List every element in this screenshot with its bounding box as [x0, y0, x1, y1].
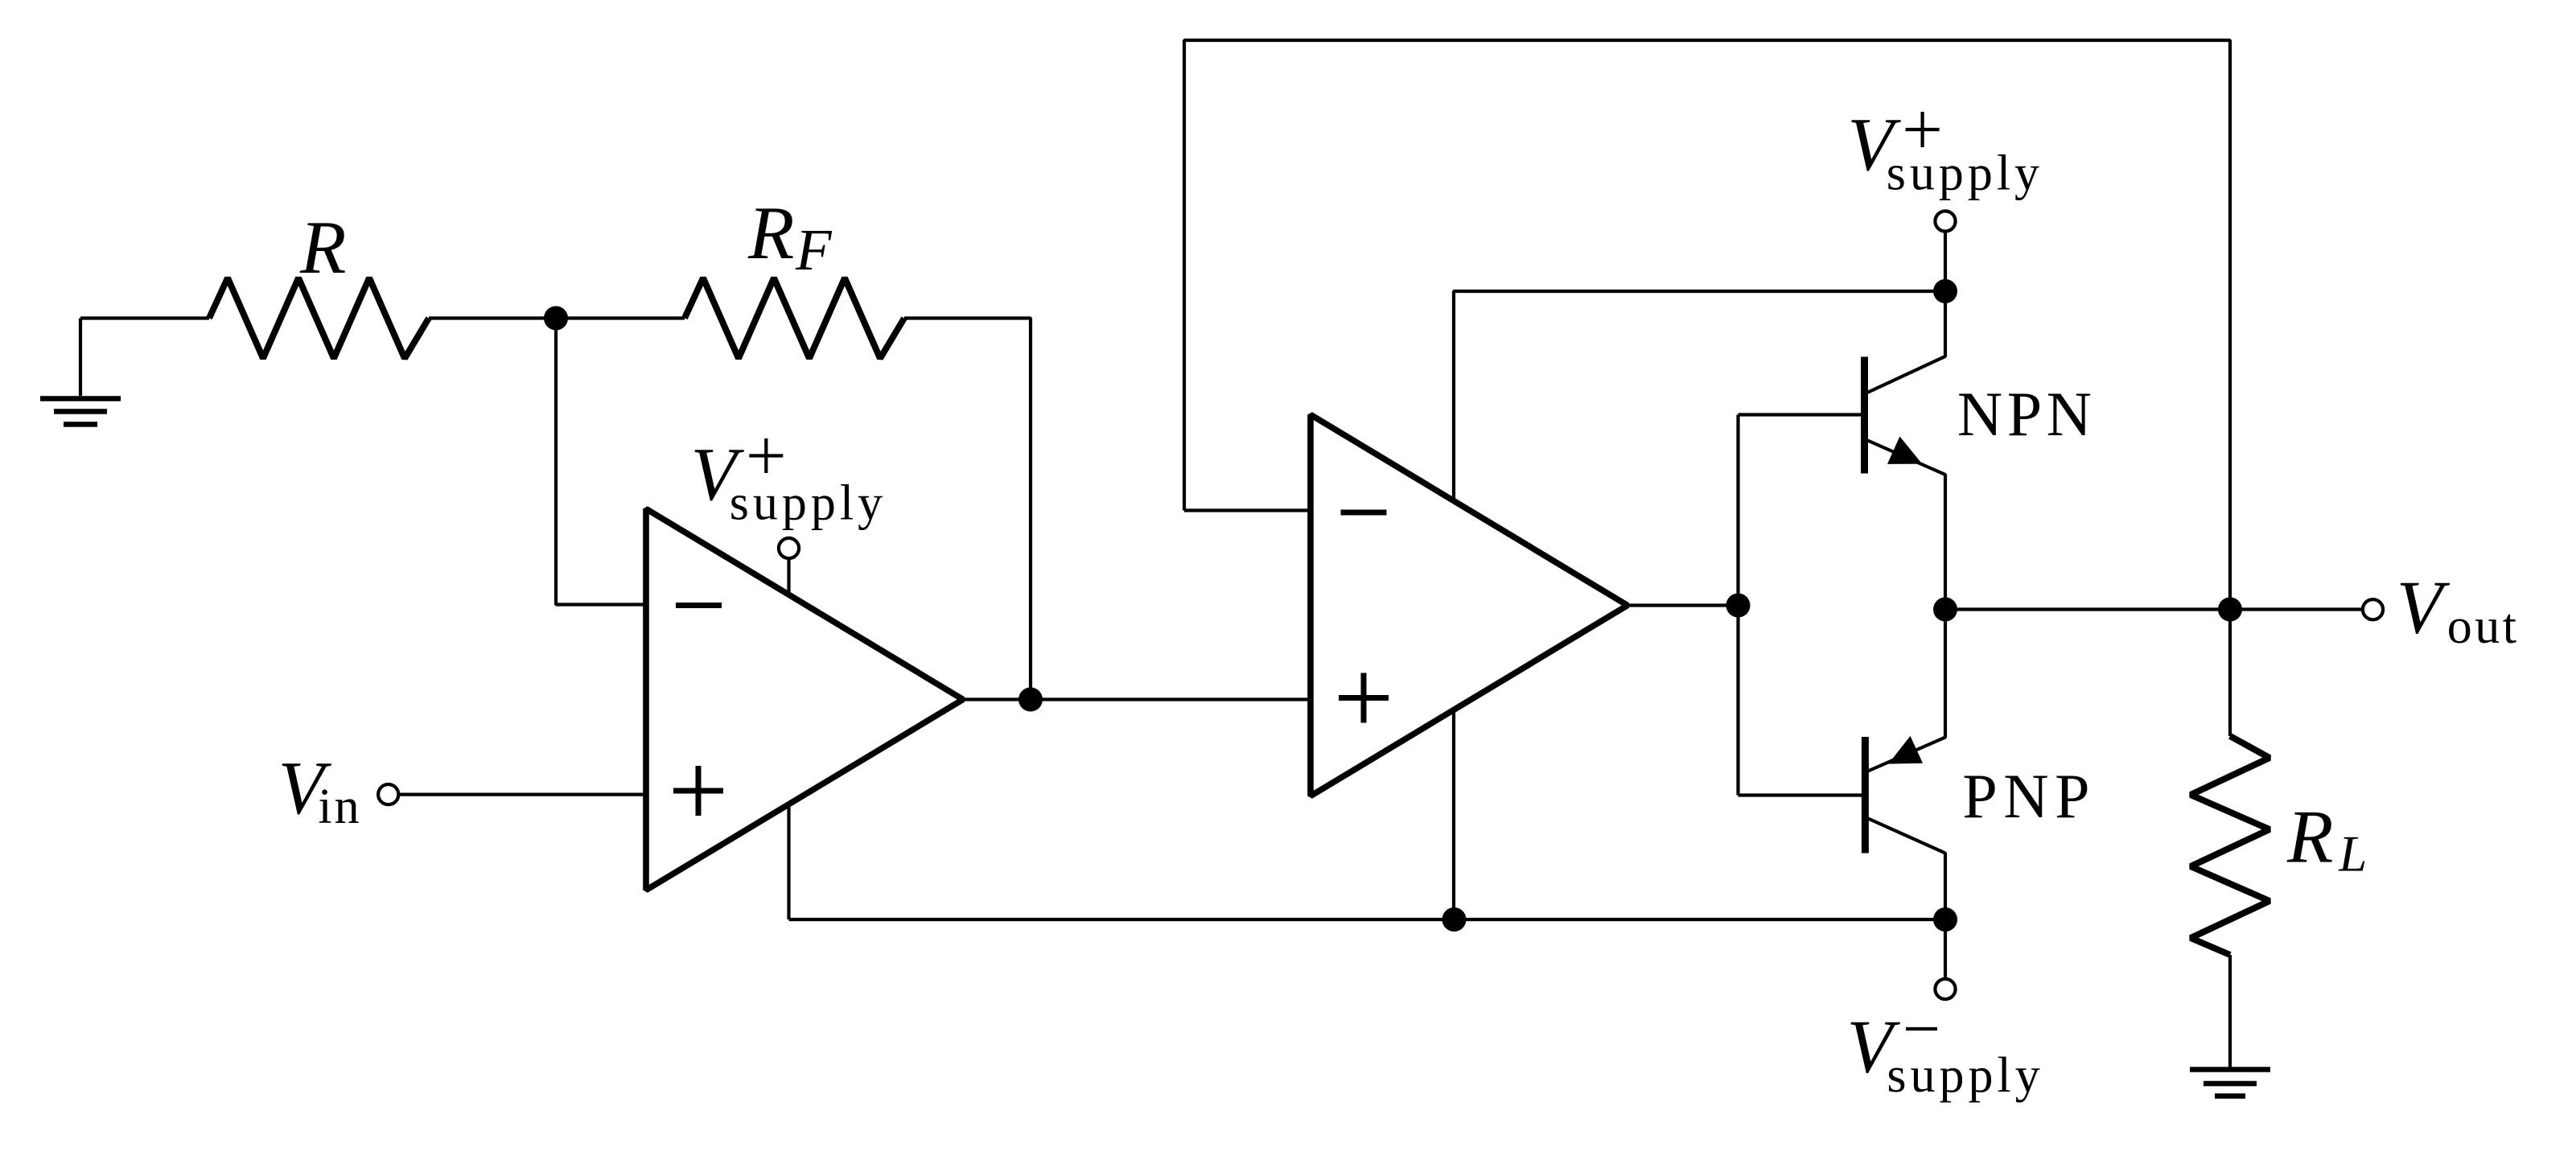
U1 V+ supply pin: [779, 538, 799, 595]
node Vout terminal: [2363, 599, 2383, 619]
svg-text:R: R: [299, 206, 346, 290]
wire feedback top rail: [1184, 40, 2230, 610]
node Vin terminal: [378, 784, 398, 804]
ground: [40, 319, 121, 425]
label Vout: [2397, 566, 2520, 654]
svg-text:NPN: NPN: [1957, 379, 2097, 449]
label V+supply U1: [691, 433, 887, 531]
wire RL bottom: [2228, 955, 2232, 1067]
node rail-U2: [1442, 907, 1467, 932]
wire: [904, 319, 1031, 700]
wire U2 output: [1627, 603, 1739, 607]
resistor R: [209, 278, 429, 359]
resistor RF: [685, 278, 904, 359]
wire RL top: [2228, 610, 2232, 737]
node V- supply junction: [1933, 907, 1957, 932]
op-amp U1: [646, 509, 963, 891]
node emitter junction: [1933, 598, 1957, 622]
svg-text:supply: supply: [730, 476, 887, 531]
wire: [429, 316, 556, 319]
wire bottom rail: [789, 918, 1946, 921]
wire Vout: [1945, 607, 2363, 611]
svg-text:L: L: [2338, 826, 2367, 882]
wire node B to U2 plus input: [1031, 697, 1311, 701]
U2 V- supply pin: [1452, 711, 1455, 919]
svg-text:V: V: [2397, 566, 2450, 649]
ground 2: [2190, 1070, 2270, 1096]
V+ supply terminal: [1935, 211, 1955, 291]
resistor RL: [2191, 736, 2269, 955]
V- supply terminal: [1935, 919, 1955, 999]
transistor Q1 NPN: [1739, 291, 1946, 610]
node feedback/RL: [2218, 598, 2242, 622]
svg-text:F: F: [795, 217, 833, 282]
U1 V- supply pin: [787, 804, 790, 920]
wire U2 minus input: [1184, 508, 1311, 512]
op-amp U2: [1311, 415, 1627, 796]
svg-text:PNP: PNP: [1962, 761, 2096, 831]
transistor Q2 PNP: [1739, 610, 1946, 920]
label V-supply bottom: [1847, 1006, 2044, 1103]
label V+supply top: [1847, 103, 2043, 200]
svg-text:R: R: [747, 191, 794, 275]
wire base rail: [1736, 415, 1739, 796]
node B: [1018, 688, 1043, 712]
U2 V+ supply riser: [1454, 291, 1945, 501]
svg-text:supply: supply: [1887, 1048, 2043, 1103]
wire: [556, 319, 646, 605]
svg-text:in: in: [318, 780, 361, 834]
label RF: [747, 191, 833, 282]
svg-text:supply: supply: [1887, 146, 2043, 200]
svg-text:R: R: [2286, 796, 2333, 879]
wire U1 output: [963, 697, 1031, 701]
wire: [399, 792, 647, 796]
node base rail: [1726, 594, 1751, 618]
label Vin: [278, 747, 362, 834]
node V+ supply junction: [1933, 279, 1957, 303]
wire: [556, 316, 685, 319]
wire: [80, 316, 209, 319]
node A: [544, 306, 568, 331]
label RL: [2286, 796, 2367, 882]
svg-text:out: out: [2447, 599, 2520, 654]
